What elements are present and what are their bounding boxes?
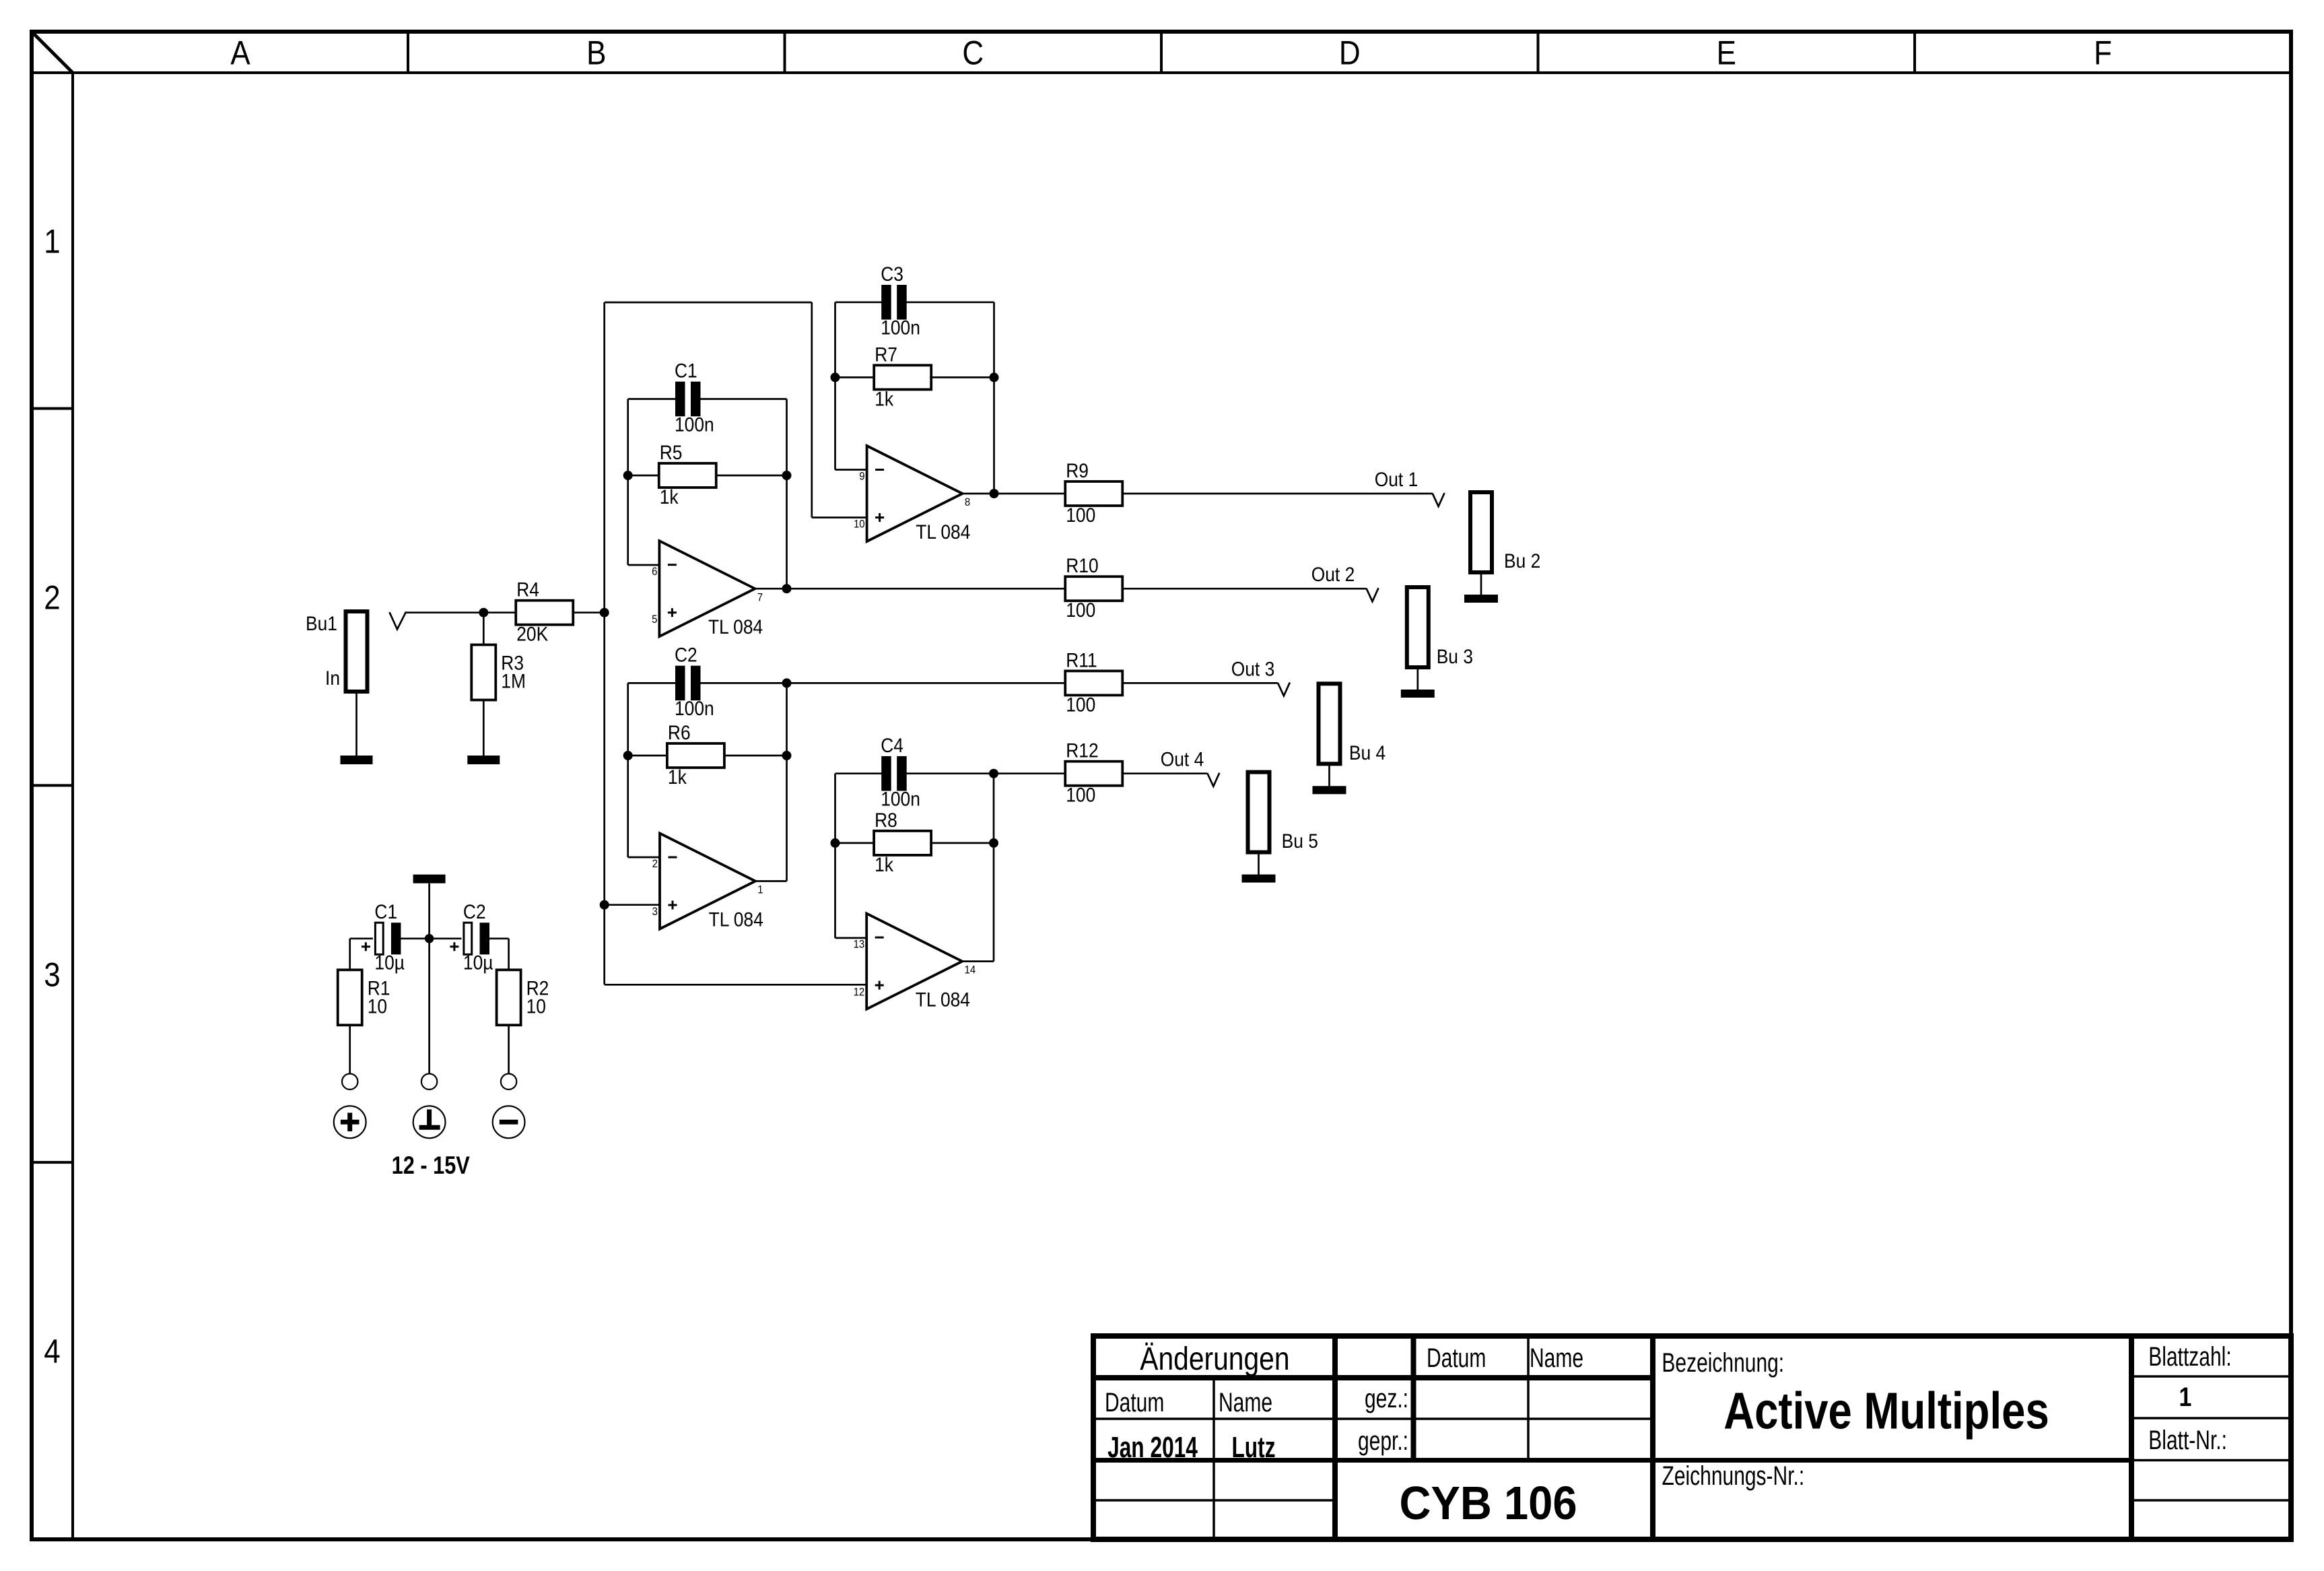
junction rail to pin3 [600, 900, 609, 910]
wire into pin 2 [628, 857, 660, 859]
svg-text:10µ: 10µ [374, 951, 405, 974]
svg-text:Active Multiples: Active Multiples [1723, 1382, 2049, 1440]
svg-text:R6: R6 [668, 721, 691, 743]
jack tip contact mark at Bu1 [390, 612, 406, 629]
resistor R5 [659, 440, 716, 508]
wire U1a feedback right rail [786, 399, 788, 589]
svg-text:R7: R7 [875, 343, 897, 366]
svg-text:1k: 1k [875, 387, 894, 410]
svg-text:Jan 2014: Jan 2014 [1107, 1431, 1198, 1464]
svg-text:1: 1 [2179, 1381, 2192, 1411]
frame column divider 1 [407, 32, 409, 73]
jack tip contact mark Out 4 [1207, 773, 1219, 787]
junction C2/R6 right [782, 678, 792, 688]
frame column divider 3 [1160, 32, 1163, 73]
wire C2 to R2 branch [487, 937, 509, 939]
svg-text:TL 084: TL 084 [708, 615, 763, 638]
svg-text:12: 12 [854, 986, 865, 998]
svg-text:C4: C4 [881, 733, 903, 756]
capacitor C2 (10µ electrolytic) [450, 900, 493, 974]
svg-text:10µ: 10µ [463, 951, 493, 974]
svg-text:100n: 100n [881, 787, 920, 810]
wire U1c output [755, 880, 787, 882]
wire U1d output [962, 960, 994, 962]
svg-text:R5: R5 [660, 440, 683, 463]
junction R5/C1 left [623, 471, 633, 480]
svg-text:1M: 1M [501, 669, 526, 692]
svg-text:9: 9 [859, 471, 864, 483]
svg-text:D: D [1339, 34, 1361, 71]
svg-text:5: 5 [652, 613, 657, 626]
wire Bu1 to ground [355, 692, 357, 756]
wire U1b feedback right rail [993, 302, 995, 494]
svg-text:R4: R4 [516, 578, 539, 601]
svg-text:Name: Name [1530, 1343, 1583, 1373]
svg-text:1k: 1k [668, 765, 687, 788]
terminal pad 0V supply [421, 1074, 437, 1090]
junction R5/C1 right [782, 471, 792, 480]
jack tip contact mark Out 3 [1278, 682, 1290, 696]
wire input node [405, 611, 517, 613]
resistor R11 [1065, 648, 1122, 716]
wire into pin 6 [628, 564, 660, 566]
svg-text:C3: C3 [881, 262, 903, 285]
svg-text:TL 084: TL 084 [916, 520, 970, 543]
svg-text:B: B [586, 34, 606, 71]
junction input/R3 [479, 608, 488, 617]
svg-text:1k: 1k [875, 853, 894, 875]
wire U1a feedback left rail [627, 399, 629, 566]
svg-text:3: 3 [44, 956, 60, 993]
capacitor C2 (100n) [675, 643, 714, 720]
terminal pad + supply [342, 1074, 357, 1090]
svg-text:C1: C1 [675, 359, 697, 382]
connector Bu 2 (output jack) [1464, 492, 1540, 603]
frame header separator [32, 71, 2291, 74]
resistor R12 [1065, 739, 1122, 806]
wire rail bottom to pin 12 [605, 984, 866, 986]
junction C4/R8 right [989, 769, 998, 778]
resistor R3 [471, 645, 526, 700]
wire R9 to Out 1 [1122, 493, 1432, 495]
svg-text:C1: C1 [374, 900, 397, 923]
wire between power caps [399, 937, 461, 939]
svg-text:E: E [1717, 34, 1736, 71]
svg-text:Bu 5: Bu 5 [1282, 829, 1318, 852]
svg-text:2: 2 [44, 578, 60, 616]
ground bar power section [413, 875, 446, 883]
svg-text:1: 1 [757, 884, 763, 896]
connector Bu 3 (output jack) [1401, 587, 1473, 698]
svg-text:R9: R9 [1066, 459, 1089, 481]
svg-text:C2: C2 [675, 643, 697, 666]
wire C4 left lead [835, 772, 883, 774]
svg-text:R8: R8 [875, 808, 897, 831]
op-amp U1a (TL 084) [652, 541, 763, 638]
junction R8 right rail [989, 838, 998, 848]
wire R3 to ground [483, 700, 485, 756]
junction R6/C2 left [623, 751, 633, 760]
svg-text:TL 084: TL 084 [916, 988, 970, 1011]
wire R5 right lead [716, 475, 787, 477]
wire R11 to Out 3 [1122, 682, 1278, 684]
jack tip contact mark Out 1 [1433, 493, 1445, 506]
title block [1093, 1336, 2291, 1539]
svg-text:100: 100 [1066, 693, 1095, 716]
svg-text:In: In [325, 666, 340, 689]
svg-text:Zeichnungs-Nr.:: Zeichnungs-Nr.: [1662, 1461, 1805, 1491]
wire U1d feedback left rail [834, 774, 836, 938]
junction R6 right rail [782, 751, 792, 760]
wire R1 to + terminal [349, 1025, 351, 1073]
resistor R1 [338, 970, 390, 1025]
wire into pin 3 [605, 904, 660, 906]
junction U1a output [782, 584, 792, 593]
resistor R2 [497, 970, 549, 1025]
svg-text:Out 4: Out 4 [1161, 747, 1204, 770]
svg-text:Lutz: Lutz [1231, 1431, 1275, 1464]
wire U1c feedback left rail [627, 683, 629, 857]
capacitor C4 (100n) [881, 733, 920, 810]
wire R12 to Out 4 [1122, 772, 1207, 774]
wire R8 right lead [930, 842, 994, 844]
wire into pin 9 [835, 469, 867, 471]
svg-text:6: 6 [652, 566, 657, 578]
resistor R10 [1065, 554, 1122, 622]
resistor R6 [667, 721, 724, 788]
terminal pad − supply [501, 1074, 516, 1090]
svg-text:Out 2: Out 2 [1311, 563, 1355, 586]
svg-text:2: 2 [652, 858, 658, 870]
svg-text:20K: 20K [516, 622, 548, 645]
wire U1c feedback right rail [786, 683, 788, 881]
svg-text:8: 8 [965, 496, 970, 508]
svg-text:1k: 1k [660, 485, 679, 508]
frame row divider 1 [32, 407, 73, 410]
wire to R3 [483, 613, 485, 645]
frame column divider 5 [1913, 32, 1916, 73]
svg-text:13: 13 [854, 938, 865, 950]
wire down to R2 [508, 939, 510, 970]
svg-text:100: 100 [1066, 783, 1095, 806]
svg-text:100n: 100n [675, 413, 714, 436]
frame row divider 3 [32, 1161, 73, 1164]
wire U1b output to R9 [963, 493, 1066, 495]
jack tip contact mark Out 2 [1367, 588, 1379, 601]
svg-text:Datum: Datum [1105, 1388, 1164, 1417]
wire C3 right lead [906, 301, 994, 303]
ground under Bu1 [341, 756, 373, 764]
frame column divider 2 [784, 32, 786, 73]
wire R8 left lead [835, 842, 875, 844]
svg-text:Bu 4: Bu 4 [1349, 741, 1386, 764]
junction R8/C4 left [831, 838, 840, 848]
frame corner bevel [32, 32, 73, 73]
svg-text:14: 14 [965, 964, 976, 976]
svg-text:R10: R10 [1066, 554, 1098, 577]
wire down to pin 10 [811, 302, 813, 518]
resistor R7 [874, 343, 931, 410]
svg-text:Out 1: Out 1 [1375, 467, 1419, 490]
wire C1 right lead [699, 398, 786, 400]
svg-text:100: 100 [1066, 599, 1095, 622]
svg-text:F: F [2094, 34, 2112, 71]
supply symbol earth [413, 1106, 446, 1138]
wire U1b feedback left rail [834, 302, 836, 470]
svg-text:Datum: Datum [1427, 1343, 1486, 1373]
svg-text:Bu 2: Bu 2 [1504, 549, 1540, 572]
wire R5 left lead [628, 475, 659, 477]
connector Bu 4 (output jack) [1313, 683, 1386, 794]
wire R6 left lead [628, 755, 668, 757]
op-amp U1c (TL 084) [652, 834, 763, 931]
supply symbol − [493, 1106, 525, 1138]
svg-text:TL 084: TL 084 [709, 908, 763, 931]
wire R7 left lead [835, 376, 875, 378]
op-amp U1b (TL 084) [854, 446, 970, 543]
frame column divider 4 [1537, 32, 1540, 73]
svg-text:10: 10 [368, 995, 387, 1017]
svg-text:R11: R11 [1066, 648, 1097, 671]
wire U1d feedback right rail [993, 774, 995, 962]
wire C1 left lead [628, 398, 677, 400]
ground under R3 [467, 756, 500, 764]
junction R7/C3 right [990, 372, 999, 382]
op-amp U1d (TL 084) [854, 914, 976, 1011]
junction U1b output [990, 489, 999, 498]
resistor R9 [1065, 459, 1122, 526]
svg-text:7: 7 [757, 591, 763, 603]
wire C3 left lead [835, 301, 883, 303]
frame row divider 2 [32, 784, 73, 787]
svg-text:gez.:: gez.: [1365, 1384, 1408, 1413]
svg-text:1: 1 [44, 222, 60, 260]
svg-text:3: 3 [652, 906, 658, 918]
svg-text:Änderungen: Änderungen [1140, 1341, 1289, 1377]
svg-text:A: A [230, 34, 250, 71]
svg-text:Bu 3: Bu 3 [1437, 644, 1473, 667]
wire down to R1 [349, 939, 351, 970]
resistor R8 [874, 808, 931, 875]
capacitor C1 (10µ electrolytic) [362, 900, 405, 974]
wire R7 right lead [930, 376, 994, 378]
frame left column separator [71, 73, 74, 1539]
wire C4 to R12 [906, 772, 1066, 774]
wire into pin 13 [835, 937, 867, 939]
wire ground to middle terminal [428, 883, 430, 1074]
wire C1 to R1 branch [350, 937, 373, 939]
svg-text:100n: 100n [675, 697, 714, 720]
wire C2 to R11 [699, 682, 1065, 684]
supply symbol + [334, 1106, 366, 1138]
svg-text:10: 10 [526, 995, 546, 1017]
junction node A [600, 608, 609, 617]
wire U1a output to R10 [755, 588, 1065, 590]
svg-text:100: 100 [1066, 503, 1095, 526]
svg-text:Blatt-Nr.:: Blatt-Nr.: [2148, 1426, 2227, 1455]
wire main distribution rail [603, 302, 605, 984]
svg-text:Bezeichnung:: Bezeichnung: [1662, 1348, 1784, 1378]
svg-text:4: 4 [44, 1332, 60, 1370]
wire C2 left lead [628, 682, 677, 684]
capacitor C3 (100n) [881, 262, 920, 339]
capacitor C1 (100n) [675, 359, 714, 436]
wire R2 to − terminal [508, 1025, 510, 1073]
svg-text:gepr.:: gepr.: [1358, 1426, 1408, 1456]
connector Bu1 (input jack) [306, 611, 368, 692]
svg-text:Out 3: Out 3 [1231, 657, 1275, 680]
svg-text:C2: C2 [463, 900, 486, 923]
wire R10 to Out 2 [1122, 588, 1366, 590]
connector Bu 5 (output jack) [1242, 772, 1318, 883]
svg-text:CYB 106: CYB 106 [1399, 1477, 1577, 1530]
svg-text:Name: Name [1219, 1388, 1272, 1417]
svg-text:10: 10 [854, 519, 865, 531]
wire R4 to node A [572, 611, 605, 613]
svg-text:12 - 15V: 12 - 15V [392, 1151, 470, 1180]
svg-text:C: C [962, 34, 984, 71]
wire into pin 10 [812, 516, 867, 519]
wire R6 right lead [724, 755, 787, 757]
svg-text:R12: R12 [1066, 739, 1098, 762]
wire rail top to U1b+ [605, 302, 812, 304]
junction power caps [425, 934, 434, 943]
junction R7/C3 left [831, 372, 840, 382]
resistor R4 [516, 578, 573, 645]
svg-text:Blattzahl:: Blattzahl: [2148, 1342, 2231, 1372]
svg-text:100n: 100n [881, 316, 920, 339]
svg-text:Bu1: Bu1 [306, 611, 337, 634]
